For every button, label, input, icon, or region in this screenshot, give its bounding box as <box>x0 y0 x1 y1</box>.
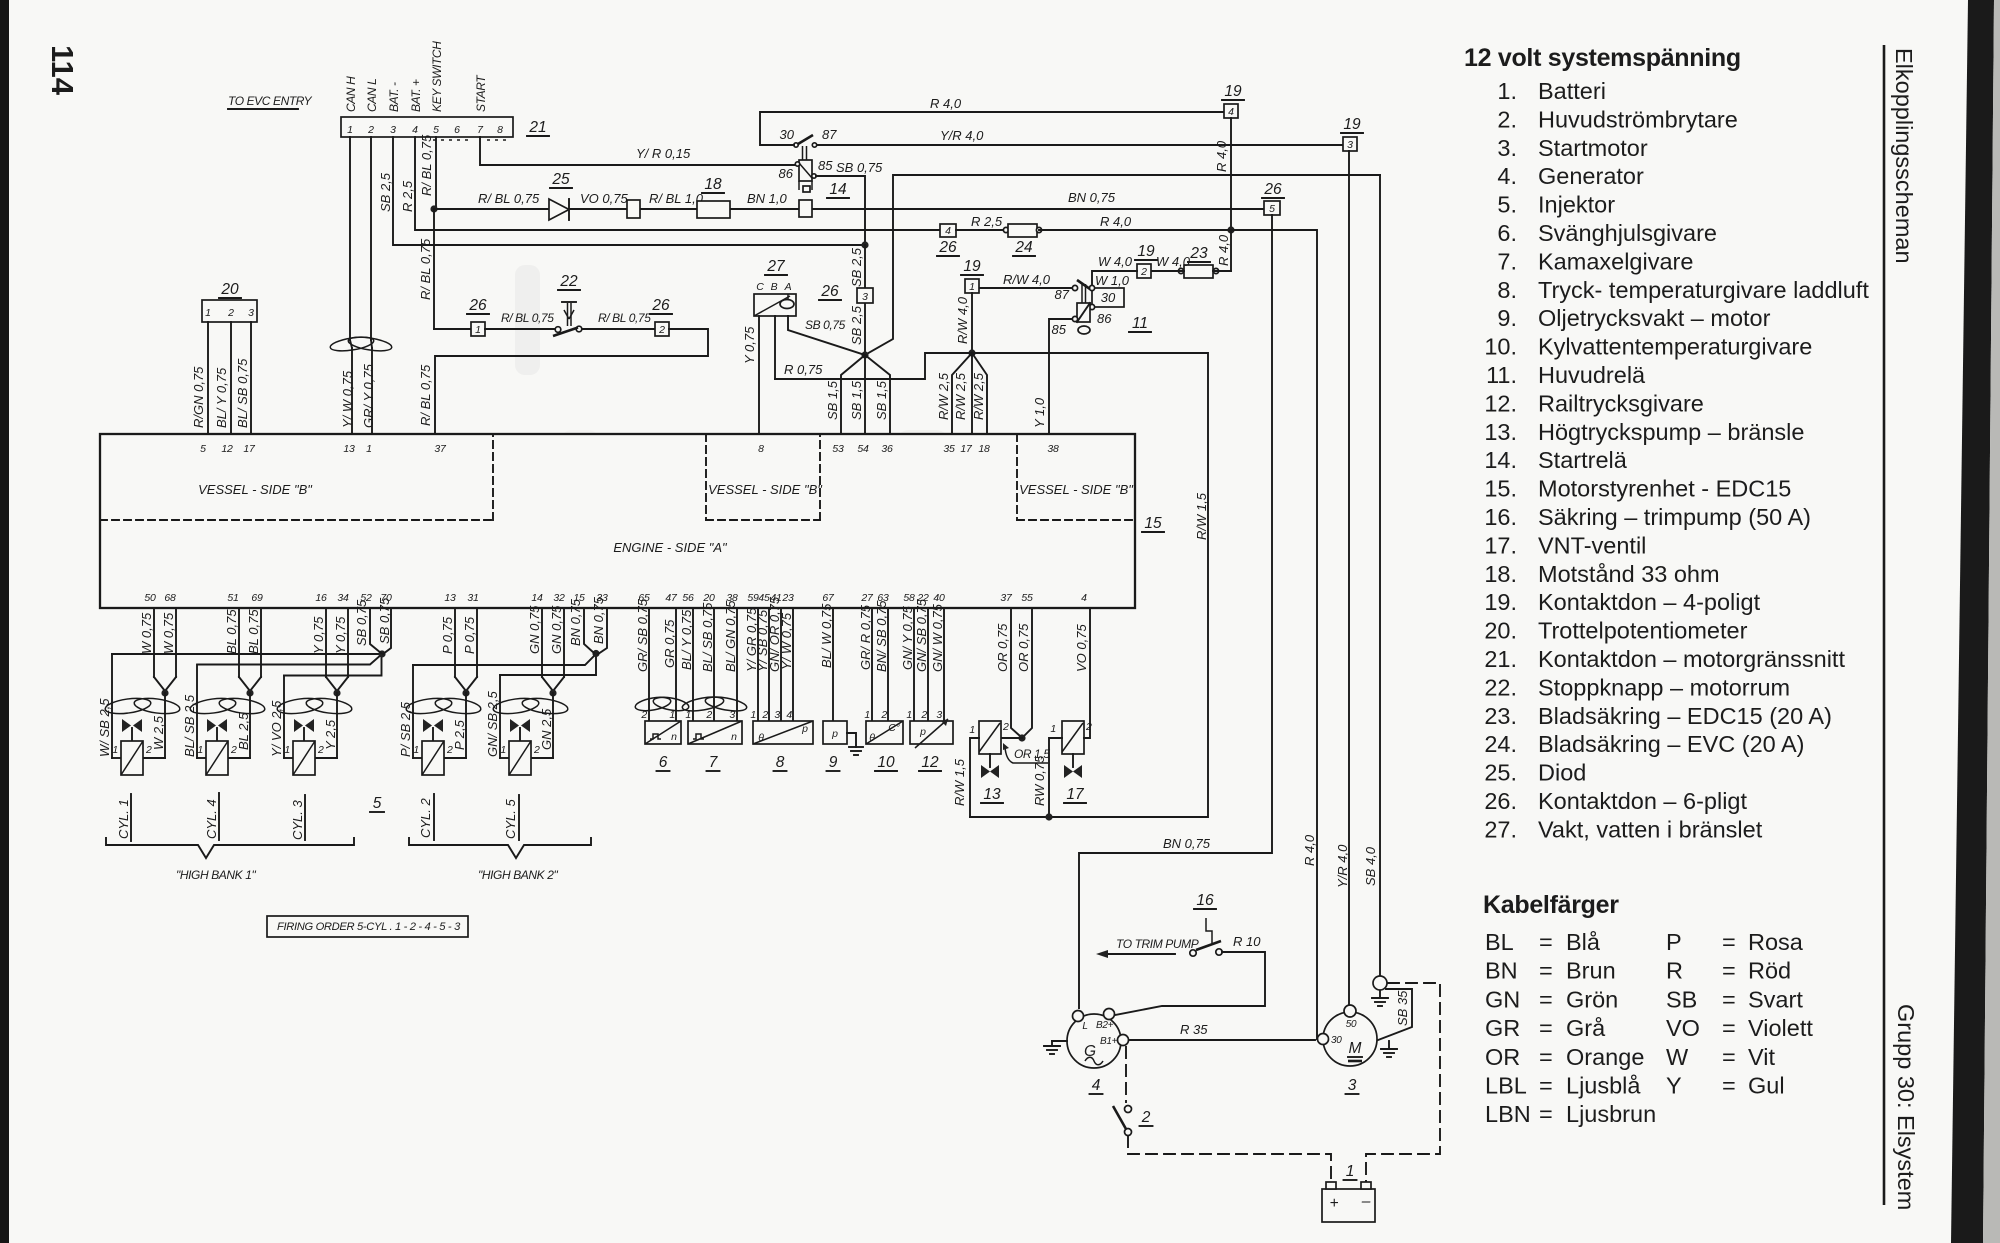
svg-text:BL/ SB 0,75: BL/ SB 0,75 <box>700 602 715 672</box>
svg-text:2: 2 <box>1141 1109 1151 1126</box>
svg-text:Vakt, vatten i bränslet: Vakt, vatten i bränslet <box>1538 816 1763 842</box>
svg-text:Injektor: Injektor <box>1538 192 1615 218</box>
injector CYL.4 supply wire <box>196 665 198 759</box>
VNT valve 17 <box>1062 721 1084 754</box>
svg-text:A: A <box>784 281 792 293</box>
svg-text:3.: 3. <box>1497 135 1517 161</box>
svg-text:23: 23 <box>781 592 794 604</box>
wire R 2,5 BAT+ to connector 26 pin 4 <box>415 137 940 230</box>
connector 21 - engine interface <box>341 117 513 137</box>
svg-text:2: 2 <box>761 709 768 721</box>
svg-text:n: n <box>671 731 677 743</box>
svg-text:36: 36 <box>881 443 893 455</box>
svg-text:8.: 8. <box>1497 277 1517 303</box>
diode 25 <box>549 199 569 220</box>
margin rule <box>1883 45 1886 1205</box>
svg-text:=: = <box>1539 986 1553 1012</box>
wire CAN H to ECU pin 13 <box>349 137 351 340</box>
svg-text:17: 17 <box>243 443 256 455</box>
right page edge shadow <box>1951 0 1994 1243</box>
svg-text:5: 5 <box>200 443 206 455</box>
svg-text:CYL. 3: CYL. 3 <box>290 799 305 840</box>
wire Y/R 4,0 connector 19-3 to starter 50 <box>1348 151 1350 1005</box>
svg-text:47: 47 <box>665 592 678 604</box>
left page edge <box>0 0 9 1243</box>
svg-text:1: 1 <box>864 709 870 721</box>
svg-text:Kontaktdon – 4-poligt: Kontaktdon – 4-poligt <box>1538 589 1761 615</box>
connector 26 pin 1 <box>471 322 485 336</box>
svg-text:BL/ SB 0,75: BL/ SB 0,75 <box>235 358 250 428</box>
svg-text:GN/ Y 0,75: GN/ Y 0,75 <box>900 605 915 670</box>
svg-text:1: 1 <box>197 744 203 756</box>
svg-text:Grå: Grå <box>1566 1015 1606 1041</box>
relay 14 terminal box <box>799 200 812 217</box>
svg-text:24.: 24. <box>1484 731 1517 757</box>
svg-text:38: 38 <box>1047 443 1059 455</box>
svg-text:R/ BL 0,75: R/ BL 0,75 <box>418 364 433 426</box>
svg-text:Röd: Röd <box>1748 958 1791 984</box>
svg-text:Grön: Grön <box>1566 986 1618 1012</box>
svg-text:9: 9 <box>829 754 838 771</box>
ground at starter <box>1388 1041 1390 1049</box>
svg-text:87: 87 <box>822 127 837 142</box>
svg-text:Orange: Orange <box>1566 1044 1644 1070</box>
svg-text:26: 26 <box>468 297 487 314</box>
sensor 12 - rail pressure sensor <box>913 608 915 721</box>
wires OR 0,75 from ECU pins 37 55 <box>1011 608 1022 738</box>
dotted marks below connector 21 <box>433 139 468 141</box>
wire R 0,75 from component 27 <box>774 316 776 379</box>
svg-text:LBL: LBL <box>1485 1073 1527 1099</box>
svg-text:R 4,0: R 4,0 <box>1214 140 1229 172</box>
svg-text:Elkopplingsscheman: Elkopplingsscheman <box>1891 48 1917 264</box>
svg-text:24: 24 <box>1014 239 1033 256</box>
svg-text:Ljusbrun: Ljusbrun <box>1566 1101 1656 1127</box>
stop button circuit R/BL 0,75 <box>433 209 435 329</box>
high bank 1 brace <box>106 838 354 858</box>
wires from potentiometer to ECU pins 5 12 17 <box>207 322 209 434</box>
svg-text:27: 27 <box>860 592 874 604</box>
svg-text:56: 56 <box>682 592 694 604</box>
svg-text:LBN: LBN <box>1485 1101 1531 1127</box>
wire SB 2,5 BAT- to ground junction <box>393 137 861 245</box>
svg-text:Bladsäkring – EVC (20 A): Bladsäkring – EVC (20 A) <box>1538 731 1804 757</box>
svg-text:R/W 4,0: R/W 4,0 <box>955 296 970 344</box>
svg-text:SB 1,5: SB 1,5 <box>849 380 864 420</box>
svg-text:R/W 1,5: R/W 1,5 <box>952 758 967 806</box>
svg-text:Violett: Violett <box>1748 1015 1813 1041</box>
svg-text:Y/R 4,0: Y/R 4,0 <box>1335 844 1350 888</box>
svg-text:R 0,75: R 0,75 <box>784 362 823 377</box>
svg-text:26: 26 <box>651 297 670 314</box>
svg-text:KEY SWITCH: KEY SWITCH <box>430 41 444 112</box>
svg-text:BL/ SB 2,5: BL/ SB 2,5 <box>182 694 197 757</box>
svg-text:Y: Y <box>1666 1073 1682 1099</box>
vessel side B partition right <box>1016 434 1018 520</box>
svg-text:40: 40 <box>933 592 945 604</box>
svg-text:BN: BN <box>1485 958 1518 984</box>
svg-text:VO: VO <box>1666 1015 1700 1041</box>
ECU 15 - EDC15 engine control unit <box>100 434 1135 608</box>
svg-text:R/ BL 0,75: R/ BL 0,75 <box>478 191 540 206</box>
svg-text:34: 34 <box>337 592 349 604</box>
svg-text:R/W 1,5: R/W 1,5 <box>1194 492 1209 540</box>
wire Y 0,75 to ECU pin 8 <box>758 316 760 434</box>
wire R/W 4,0 down to junction <box>971 293 973 353</box>
ground strap SB 35 to starter <box>1378 989 1412 1040</box>
wire Y/R 4,0 start motor feed <box>817 144 1343 146</box>
svg-text:Y 1,0: Y 1,0 <box>1032 397 1047 428</box>
svg-text:GN/ SB 2,5: GN/ SB 2,5 <box>485 690 500 757</box>
svg-text:B: B <box>771 281 778 293</box>
sensor 8 - charge air pressure-temperature sensor <box>757 608 759 721</box>
svg-text:7: 7 <box>709 754 719 771</box>
svg-text:Kamaxelgivare: Kamaxelgivare <box>1538 248 1693 274</box>
svg-text:BL: BL <box>1485 929 1514 955</box>
svg-text:50: 50 <box>144 592 156 604</box>
svg-text:TO TRIM PUMP: TO TRIM PUMP <box>1116 937 1199 951</box>
generator 4 <box>1067 1014 1121 1068</box>
svg-text:67: 67 <box>822 592 835 604</box>
svg-text:P 0,75: P 0,75 <box>462 616 477 654</box>
svg-text:Kontaktdon – motorgränssnitt: Kontaktdon – motorgränssnitt <box>1538 646 1845 672</box>
node bank 1 SB junction <box>378 650 385 657</box>
svg-text:TO EVC ENTRY: TO EVC ENTRY <box>228 94 313 108</box>
svg-text:14: 14 <box>531 592 543 604</box>
node OR junction <box>1018 734 1025 741</box>
svg-text:20: 20 <box>702 592 715 604</box>
svg-text:Batteri: Batteri <box>1538 78 1606 104</box>
svg-text:3: 3 <box>1347 139 1353 151</box>
svg-text:17.: 17. <box>1484 532 1517 558</box>
connector 26 pin 2 <box>655 322 669 336</box>
arrow to trim pump <box>1106 953 1175 955</box>
ground at sensor 9 <box>847 733 856 747</box>
svg-text:12: 12 <box>221 443 233 455</box>
svg-text:R/ BL 0,75: R/ BL 0,75 <box>501 311 554 325</box>
wires SB 1,5 to ECU pins 53 54 36 <box>841 355 865 434</box>
wire R/BL 0,75 key switch feed <box>435 137 437 207</box>
high pressure pump valve 13 <box>979 721 1001 754</box>
svg-text:BN 0,75: BN 0,75 <box>1068 190 1116 205</box>
svg-text:=: = <box>1722 958 1736 984</box>
node SB distribution junction <box>861 351 868 358</box>
svg-text:18.: 18. <box>1484 561 1517 587</box>
svg-text:3: 3 <box>729 709 735 721</box>
svg-text:R/W 2,5: R/W 2,5 <box>971 372 986 420</box>
svg-text:W 0,75: W 0,75 <box>161 612 176 654</box>
svg-text:11: 11 <box>1132 315 1148 332</box>
svg-text:R/W 2,5: R/W 2,5 <box>953 372 968 420</box>
injector CYL.2 <box>405 608 482 775</box>
svg-text:BAT. +: BAT. + <box>409 79 423 112</box>
svg-text:R 4,0: R 4,0 <box>1100 214 1132 229</box>
svg-text:BN 0,75: BN 0,75 <box>591 596 606 644</box>
svg-text:16.: 16. <box>1484 504 1517 530</box>
wire W 4,0 fuse 23 to relay 11 <box>1213 270 1231 272</box>
svg-text:Svart: Svart <box>1748 986 1803 1012</box>
svg-text:BN 0,75: BN 0,75 <box>1163 836 1211 851</box>
svg-text:p: p <box>919 726 926 738</box>
svg-text:17: 17 <box>960 443 973 455</box>
svg-text:B1+: B1+ <box>1100 1036 1118 1047</box>
svg-text:P: P <box>1666 929 1682 955</box>
svg-text:3: 3 <box>862 291 868 303</box>
injector CYL.2 supply wire <box>412 665 414 758</box>
svg-text:R/ BL 0,75: R/ BL 0,75 <box>418 238 433 300</box>
ground bus riser <box>865 175 1380 355</box>
svg-text:Y/ VO 2,5: Y/ VO 2,5 <box>269 700 284 757</box>
svg-text:B2+: B2+ <box>1096 1020 1114 1031</box>
svg-text:Motorstyrenhet - EDC15: Motorstyrenhet - EDC15 <box>1538 476 1791 502</box>
wire Y/R 0,15 start signal to relay 14 <box>480 137 795 165</box>
injector CYL.5 supply wire <box>499 675 501 758</box>
svg-text:R 2,5: R 2,5 <box>400 180 415 212</box>
svg-text:30: 30 <box>780 127 795 142</box>
svg-text:13: 13 <box>983 786 1001 803</box>
svg-text:10: 10 <box>877 754 895 771</box>
svg-text:3: 3 <box>248 307 254 319</box>
svg-text:R/GN 0,75: R/GN 0,75 <box>191 366 206 428</box>
svg-text:4: 4 <box>945 225 951 237</box>
wire BN 0,75 connector 26-5 to generator L <box>1079 215 1272 1008</box>
svg-text:26: 26 <box>1263 181 1282 198</box>
connector 19 pin 1 <box>965 279 979 293</box>
svg-text:C: C <box>756 281 764 293</box>
svg-text:19: 19 <box>1343 116 1361 133</box>
resistor 18 - 33 ohm <box>697 201 730 218</box>
svg-text:L: L <box>1082 1021 1087 1032</box>
svg-text:START: START <box>474 74 488 112</box>
svg-text:W 2,5: W 2,5 <box>151 715 166 750</box>
svg-text:25.: 25. <box>1484 760 1517 786</box>
wire SB 2,5 through connector 26 pin 3 <box>864 245 866 355</box>
svg-text:Y 0,75: Y 0,75 <box>311 616 326 654</box>
svg-text:VESSEL - SIDE "B": VESSEL - SIDE "B" <box>198 482 313 497</box>
wire return to ECU pin 37 <box>435 329 708 434</box>
svg-text:BN 1,0: BN 1,0 <box>747 191 788 206</box>
svg-text:16: 16 <box>1196 892 1214 909</box>
svg-text:BL/ W 0,75: BL/ W 0,75 <box>819 603 834 668</box>
svg-text:37: 37 <box>1000 592 1013 604</box>
wire R/W 4,0 connector 19-1 to relay 11 <box>979 287 1072 289</box>
svg-text:BAT. -: BAT. - <box>387 82 401 112</box>
svg-text:R 4,0: R 4,0 <box>930 96 962 111</box>
svg-text:–: – <box>1361 1193 1371 1210</box>
svg-text:Rosa: Rosa <box>1748 929 1804 955</box>
injector CYL.3 <box>276 608 353 775</box>
svg-text:1.: 1. <box>1497 78 1517 104</box>
svg-text:Svänghjulsgivare: Svänghjulsgivare <box>1538 220 1717 246</box>
relay 14 - start relay <box>798 135 813 144</box>
svg-text:W: W <box>1666 1044 1689 1070</box>
svg-text:68: 68 <box>164 592 176 604</box>
svg-text:=: = <box>1722 1015 1736 1041</box>
svg-text:11.: 11. <box>1486 362 1517 388</box>
svg-text:3: 3 <box>1348 1077 1357 1094</box>
svg-text:R 2,5: R 2,5 <box>971 214 1003 229</box>
svg-text:19: 19 <box>1137 243 1155 260</box>
bank 2 SB return bus <box>413 654 596 665</box>
svg-text:1: 1 <box>475 324 481 336</box>
svg-text:4.: 4. <box>1497 163 1517 189</box>
dashed wire switch 2 to battery plus <box>1128 1136 1331 1189</box>
svg-text:Huvudströmbrytare: Huvudströmbrytare <box>1538 106 1738 132</box>
svg-text:26.: 26. <box>1484 788 1517 814</box>
svg-text:Diod: Diod <box>1538 760 1586 786</box>
svg-text:CYL. 2: CYL. 2 <box>418 797 433 838</box>
svg-text:85: 85 <box>818 158 833 173</box>
wire R 4,0 to starter <box>1231 230 1317 1039</box>
svg-text:18: 18 <box>978 443 990 455</box>
svg-text:54: 54 <box>857 443 869 455</box>
svg-text:Motstånd 33 ohm: Motstånd 33 ohm <box>1538 561 1720 587</box>
ground terminal eye <box>1373 976 1387 990</box>
svg-text:8: 8 <box>497 124 503 136</box>
svg-text:114: 114 <box>45 45 80 96</box>
svg-text:2: 2 <box>920 709 927 721</box>
svg-text:R/W 4,0: R/W 4,0 <box>1003 272 1051 287</box>
wire R 0,75 water guard to R/W junction <box>775 353 972 379</box>
svg-text:=: = <box>1539 1101 1553 1127</box>
svg-text:R 4,0: R 4,0 <box>1216 234 1231 266</box>
svg-text:Bladsäkring – EDC15 (20 A): Bladsäkring – EDC15 (20 A) <box>1538 703 1832 729</box>
node key switch junction <box>430 205 437 212</box>
svg-text:SB 35: SB 35 <box>1395 990 1410 1026</box>
svg-text:VO 0,75: VO 0,75 <box>580 191 628 206</box>
svg-text:14.: 14. <box>1484 447 1517 473</box>
svg-text:SB 0,75: SB 0,75 <box>805 318 846 332</box>
svg-text:Blå: Blå <box>1566 929 1601 955</box>
svg-text:Y/ R 0,15: Y/ R 0,15 <box>636 146 691 161</box>
svg-text:=: = <box>1722 1044 1736 1070</box>
connector 26 pin 5 <box>1264 201 1280 215</box>
fuse 24 - EVC 20A <box>1003 227 1008 232</box>
sensor 7 - camshaft sensor <box>692 608 694 721</box>
svg-text:86: 86 <box>779 166 794 181</box>
svg-text:P 2,5: P 2,5 <box>452 719 467 750</box>
svg-text:P/ SB 2,5: P/ SB 2,5 <box>398 701 413 757</box>
sensor 10 - coolant temperature sensor <box>871 608 873 721</box>
scan artifact smudges <box>515 265 540 375</box>
svg-text:SB 2,5: SB 2,5 <box>849 305 864 345</box>
svg-text:10.: 10. <box>1484 334 1517 360</box>
svg-text:=: = <box>1539 1015 1553 1041</box>
svg-text:+: + <box>1329 1195 1338 1212</box>
svg-text:20.: 20. <box>1484 618 1517 644</box>
svg-text:Y 0,75: Y 0,75 <box>333 616 348 654</box>
svg-text:32: 32 <box>553 592 565 604</box>
svg-text:21.: 21. <box>1484 646 1517 672</box>
starter motor 3 <box>1323 1012 1377 1066</box>
svg-text:5.: 5. <box>1497 192 1517 218</box>
svg-text:27: 27 <box>766 258 786 275</box>
svg-text:BN 0,75: BN 0,75 <box>568 598 583 646</box>
svg-text:GN: GN <box>1485 986 1520 1012</box>
svg-text:27.: 27. <box>1484 816 1517 842</box>
svg-text:2: 2 <box>227 307 234 319</box>
svg-text:4: 4 <box>1092 1077 1101 1094</box>
svg-text:BL/ GN 0,75: BL/ GN 0,75 <box>723 600 738 672</box>
svg-text:p: p <box>831 728 838 740</box>
svg-text:M: M <box>1349 1040 1362 1057</box>
svg-text:21: 21 <box>528 119 546 136</box>
node SB junction <box>861 241 868 248</box>
connector 19 pin 3 <box>1343 137 1357 151</box>
vessel side B partition middle <box>705 434 707 520</box>
svg-text:1: 1 <box>685 709 691 721</box>
svg-text:1: 1 <box>969 724 975 736</box>
svg-text:51: 51 <box>227 592 238 604</box>
svg-text:"HIGH BANK 2": "HIGH BANK 2" <box>478 868 558 882</box>
svg-text:2: 2 <box>705 709 712 721</box>
svg-text:=: = <box>1539 1044 1553 1070</box>
wire Y 1,0 relay 11 to ECU pin 38 <box>1049 319 1072 434</box>
svg-text:Tryck- temperaturgivare laddlu: Tryck- temperaturgivare laddluft <box>1538 277 1869 303</box>
svg-text:22: 22 <box>559 273 578 290</box>
svg-text:GN 2,5: GN 2,5 <box>539 708 554 750</box>
svg-text:BL 2,5: BL 2,5 <box>236 712 251 750</box>
connector 26 pin 3 <box>857 288 873 303</box>
svg-text:16: 16 <box>315 592 327 604</box>
svg-text:15.: 15. <box>1484 476 1517 502</box>
svg-text:Y/ W 0,75: Y/ W 0,75 <box>779 612 794 670</box>
svg-text:2: 2 <box>367 124 374 136</box>
svg-text:86: 86 <box>1097 311 1112 326</box>
svg-text:19: 19 <box>1224 83 1242 100</box>
svg-text:9.: 9. <box>1497 305 1517 331</box>
svg-text:2: 2 <box>1140 266 1147 278</box>
svg-text:=: = <box>1539 958 1553 984</box>
svg-text:CYL. 1: CYL. 1 <box>116 799 131 839</box>
wires SB 0,75 to ECU pins 52 70 <box>370 608 381 653</box>
svg-text:VESSEL - SIDE "B": VESSEL - SIDE "B" <box>708 482 823 497</box>
svg-text:RW 0,75: RW 0,75 <box>1032 755 1047 806</box>
svg-text:69: 69 <box>251 592 263 604</box>
svg-text:R/ BL 0,75: R/ BL 0,75 <box>419 134 434 196</box>
svg-text:=: = <box>1539 929 1553 955</box>
svg-text:Kylvattentemperaturgivare: Kylvattentemperaturgivare <box>1538 334 1812 360</box>
svg-text:1: 1 <box>205 307 211 319</box>
svg-text:13.: 13. <box>1484 419 1517 445</box>
svg-text:BL 0,75: BL 0,75 <box>224 609 239 654</box>
svg-text:1: 1 <box>969 281 975 293</box>
svg-text:Ljusblå: Ljusblå <box>1566 1073 1641 1099</box>
svg-text:6.: 6. <box>1497 220 1517 246</box>
svg-text:W 4,0: W 4,0 <box>1156 254 1191 269</box>
svg-text:Y 0,75: Y 0,75 <box>742 326 757 364</box>
svg-text:13: 13 <box>343 443 355 455</box>
fuse 23 - EDC15 20A <box>1178 268 1183 273</box>
svg-text:SB 1,5: SB 1,5 <box>825 380 840 420</box>
svg-text:Högtryckspump – bränsle: Högtryckspump – bränsle <box>1538 419 1804 445</box>
svg-text:2.: 2. <box>1497 106 1517 132</box>
svg-text:5: 5 <box>373 795 382 812</box>
svg-text:SB 2,5: SB 2,5 <box>378 172 393 212</box>
svg-text:SB: SB <box>1666 986 1697 1012</box>
injector CYL.1 <box>104 608 181 775</box>
svg-text:4: 4 <box>412 124 418 136</box>
svg-text:13: 13 <box>444 592 456 604</box>
svg-text:W/ SB 2,5: W/ SB 2,5 <box>97 698 112 757</box>
svg-text:"HIGH BANK 1": "HIGH BANK 1" <box>176 868 256 882</box>
svg-text:1: 1 <box>669 709 675 721</box>
wire VO 0,75 ECU pin 4 to valve 17 <box>1084 608 1090 738</box>
wires BN 0,75 to ECU pins 15 33 <box>584 608 594 653</box>
svg-text:1: 1 <box>1346 1163 1355 1180</box>
svg-text:2: 2 <box>1002 721 1009 733</box>
svg-text:SB 2,5: SB 2,5 <box>849 247 864 287</box>
